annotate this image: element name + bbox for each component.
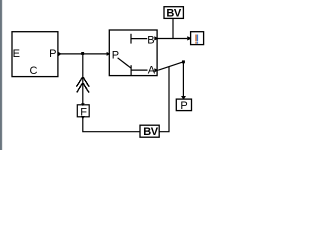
contact B bar	[130, 34, 132, 44]
indicator glyph !	[195, 35, 198, 44]
output arrow (switch A)	[154, 68, 158, 72]
svg-text:P: P	[180, 100, 187, 112]
track magnet chevrons	[76, 77, 89, 93]
switch block body	[109, 30, 157, 76]
input arrow (switch P)	[107, 52, 111, 56]
indicator box body	[191, 32, 204, 45]
svg-text:BV: BV	[143, 126, 159, 138]
wire BV1 to A net	[159, 67, 169, 132]
junction on P net	[81, 52, 84, 55]
contact A line	[131, 69, 147, 71]
wire B net	[157, 38, 187, 40]
input arrow (F top)	[81, 103, 85, 106]
input arrow (indicator)	[187, 36, 192, 40]
contact A bar	[130, 65, 132, 75]
svg-text:C: C	[30, 65, 38, 77]
wire junction down to magnet	[82, 54, 84, 104]
svg-text:P: P	[112, 50, 119, 62]
output port arrow (block C, P)	[58, 52, 61, 56]
svg-text:B: B	[147, 35, 154, 47]
contact B line	[131, 38, 147, 40]
fuse block F body	[77, 105, 89, 117]
wire BV2 stub	[172, 19, 174, 39]
svg-text:P: P	[49, 48, 56, 60]
switch arm P to A	[118, 58, 132, 68]
block BV1 body	[140, 125, 159, 137]
svg-text:BV: BV	[166, 7, 182, 19]
wire P net	[58, 53, 109, 55]
wire A junction to probe	[182, 62, 184, 99]
input arrow (probe P)	[181, 96, 186, 100]
wire A diagonal	[158, 62, 183, 70]
wire F to block BV1	[83, 117, 141, 132]
svg-text:E: E	[13, 48, 20, 60]
junction on A net	[182, 60, 185, 63]
output arrow (F bottom)	[81, 116, 85, 119]
probe box body	[176, 99, 191, 111]
block C body	[12, 32, 58, 77]
block BV2 body	[164, 7, 183, 19]
output arrow (switch B)	[154, 36, 158, 40]
